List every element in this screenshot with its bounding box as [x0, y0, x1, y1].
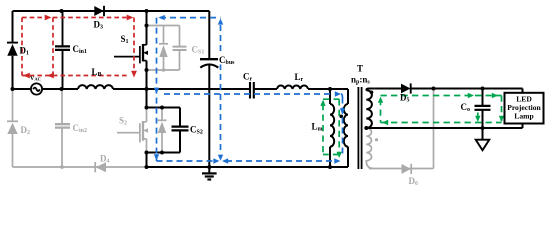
diode D1	[7, 43, 18, 56]
wire D5 to lamp	[411, 89, 523, 93]
arrow green output bottom left	[382, 120, 388, 125]
diode D5	[401, 83, 411, 93]
wire S1 drain	[146, 11, 148, 45]
wire top rail	[13, 10, 210, 12]
transformer core lines	[358, 87, 361, 169]
label Cbus	[218, 55, 235, 67]
capacitor Cin2 plates	[55, 124, 70, 127]
node bottom rail Lm	[328, 165, 332, 169]
RED dashed current loop	[22, 18, 134, 76]
transformer primary winding	[344, 89, 348, 167]
node gray rail-Cin2 junction	[60, 165, 64, 169]
wire green Co vertical	[477, 113, 479, 121]
arrow blue bottom left1	[222, 158, 228, 163]
wire blue bottom edge left	[157, 160, 215, 162]
arrow blue resonant right	[335, 91, 343, 97]
label np:ns	[351, 75, 370, 86]
wire green output top edge	[381, 95, 502, 97]
arrow red bottom left1	[23, 73, 30, 79]
arrow green right edge down	[499, 116, 504, 122]
wire green output right edge	[501, 96, 503, 122]
label VAC	[30, 76, 41, 82]
node mid line left	[11, 87, 15, 91]
node mid line Cin1	[60, 87, 64, 91]
diode D6	[402, 164, 412, 174]
wire mid line to Cr	[147, 88, 251, 90]
wire output bottom line	[366, 124, 522, 129]
wire blue right vertical	[220, 25, 222, 154]
node CS1 bottom	[145, 68, 149, 72]
BLUE dashed current loop	[157, 18, 343, 161]
label S1	[121, 34, 129, 45]
label LED Projection Lamp	[507, 95, 541, 121]
label D2	[21, 125, 31, 136]
label CS2	[189, 123, 207, 136]
node top rail Cin1	[60, 9, 64, 13]
diode D2	[7, 121, 18, 134]
capacitor Cbus plates	[200, 59, 219, 67]
node top rail S1 drain	[145, 9, 149, 13]
inductor Lr	[277, 86, 308, 89]
arrow green Lm bottom left	[337, 152, 342, 158]
arrow blue transformer down	[340, 108, 345, 114]
node bottom rail Cbus ground	[207, 165, 211, 169]
arrow blue top left	[159, 15, 165, 20]
arrow red top right1	[45, 15, 52, 21]
label D5	[400, 93, 410, 104]
node secondary polarity dot	[370, 91, 374, 95]
svg-text:VAC: VAC	[30, 76, 41, 82]
label CS1	[192, 45, 205, 56]
capacitor Co leads	[482, 89, 484, 129]
diode D4	[95, 162, 106, 172]
wire Cr to Lr	[254, 88, 277, 90]
label T	[357, 64, 363, 74]
wire blue left vertical	[156, 18, 158, 161]
node S2 diode top	[160, 106, 164, 110]
transformer secondary lower winding (gray)	[366, 128, 373, 168]
transistor S2 gray body	[117, 108, 148, 153]
label Lr	[295, 72, 304, 83]
node CS2 bottom diode	[160, 151, 164, 155]
wire green output bottom edge	[381, 122, 502, 124]
wire mid line LB to S1 node	[113, 88, 147, 90]
node CS1 bottom junction	[162, 68, 165, 71]
label S2	[119, 116, 127, 127]
label Co	[461, 102, 471, 113]
wire CS2 bottom line	[147, 153, 181, 168]
arrow blue bottom right1	[213, 158, 219, 163]
node switch mid point	[145, 87, 149, 91]
capacitor Co plates	[475, 106, 491, 110]
label D6	[409, 176, 419, 187]
node S2 drain	[145, 106, 149, 110]
label Cin2	[73, 123, 88, 134]
label D1	[20, 46, 30, 57]
label Lm	[312, 122, 323, 133]
node primary polarity dot	[339, 115, 343, 119]
capacitor Cbus leads	[208, 11, 210, 167]
wire blue resonant path top	[164, 93, 331, 95]
BLACK WIRES	[13, 11, 523, 180]
wire red left edge	[21, 18, 23, 76]
node bottom rail S2	[145, 165, 149, 169]
wire red middle edge	[52, 18, 54, 76]
wire red right edge	[133, 18, 135, 72]
node CS2 bottom left	[145, 151, 149, 155]
arrow red right down	[131, 71, 137, 78]
wire red bottom edge	[22, 75, 128, 77]
label LB	[92, 67, 102, 78]
wire gray bottom rail	[13, 166, 147, 168]
capacitor Cin1	[55, 11, 70, 89]
GRAY SECTION	[7, 26, 434, 175]
capacitor CS1 plates	[173, 47, 187, 50]
arrow green Co down	[475, 116, 480, 122]
wire red top edge	[22, 17, 131, 19]
wire blue top edge	[160, 17, 221, 19]
node gray secondary polarity dot	[375, 138, 378, 141]
svg-text:T: T	[357, 64, 363, 74]
arrow green output up	[378, 97, 383, 103]
inductor LB	[78, 85, 113, 89]
arrow blue bottom right end	[334, 158, 340, 163]
node Co bottom	[481, 126, 485, 130]
arrow blue right vertical down	[218, 155, 223, 161]
diode CS1 branch diode	[159, 44, 168, 57]
wire blue resonant vertical	[342, 98, 344, 157]
node center tap	[364, 126, 368, 130]
wire S2 drain node line	[147, 89, 181, 108]
node CS1 top	[145, 24, 149, 28]
wire gray D6 bottom wire	[369, 89, 434, 169]
label D3	[94, 20, 104, 31]
wire left vertical with D1	[12, 11, 14, 89]
node D6 return on top wire	[432, 87, 436, 91]
capacitor CS2 plates	[172, 127, 189, 131]
arrow green Lm down	[320, 100, 325, 106]
node mid line Lm	[328, 87, 332, 91]
inductor Lm branch	[330, 89, 334, 167]
diode D3	[94, 6, 104, 16]
arrow red top right2	[127, 15, 134, 21]
transistor S1	[114, 44, 148, 63]
ground center earth symbol	[202, 167, 217, 180]
wire green output left edge	[380, 99, 382, 123]
wire green Lm loop	[323, 99, 339, 154]
wire bottom rail black	[147, 166, 349, 168]
diode S2 body diode	[158, 108, 167, 153]
arrow green output top right1	[468, 93, 474, 98]
node Co top	[481, 87, 485, 91]
svg-text:Lamp: Lamp	[514, 111, 533, 120]
wire AC mid line left	[13, 88, 79, 90]
source VAC	[31, 83, 42, 94]
transformer secondary upper winding	[366, 89, 375, 128]
arrow blue left bottom down	[154, 154, 159, 160]
arrow blue left mid down	[154, 88, 159, 94]
wire S1 source down to mid node	[146, 61, 148, 89]
arrow green output top right2	[492, 93, 498, 98]
capacitor Cr leads plates	[250, 82, 254, 99]
label Cr	[243, 72, 253, 83]
wire blue bottom edge right	[226, 160, 335, 162]
label D4	[100, 154, 110, 165]
wire secondary to D5	[375, 88, 401, 90]
GREEN dashed loops	[323, 96, 502, 155]
LED lamp box	[505, 93, 544, 124]
ground right chassis symbol	[476, 128, 490, 150]
capacitor Cin2 branch wires	[61, 89, 63, 167]
wire gray left vertical D2 branch	[12, 89, 14, 167]
label Cin1	[73, 44, 88, 55]
arrow red bottom left2	[47, 73, 54, 79]
arrow blue right vertical up	[218, 18, 223, 24]
capacitor CS2 leads	[179, 108, 181, 153]
wire Lr to transformer	[308, 88, 348, 90]
capacitor CS1 gray snubber branch	[147, 26, 180, 71]
